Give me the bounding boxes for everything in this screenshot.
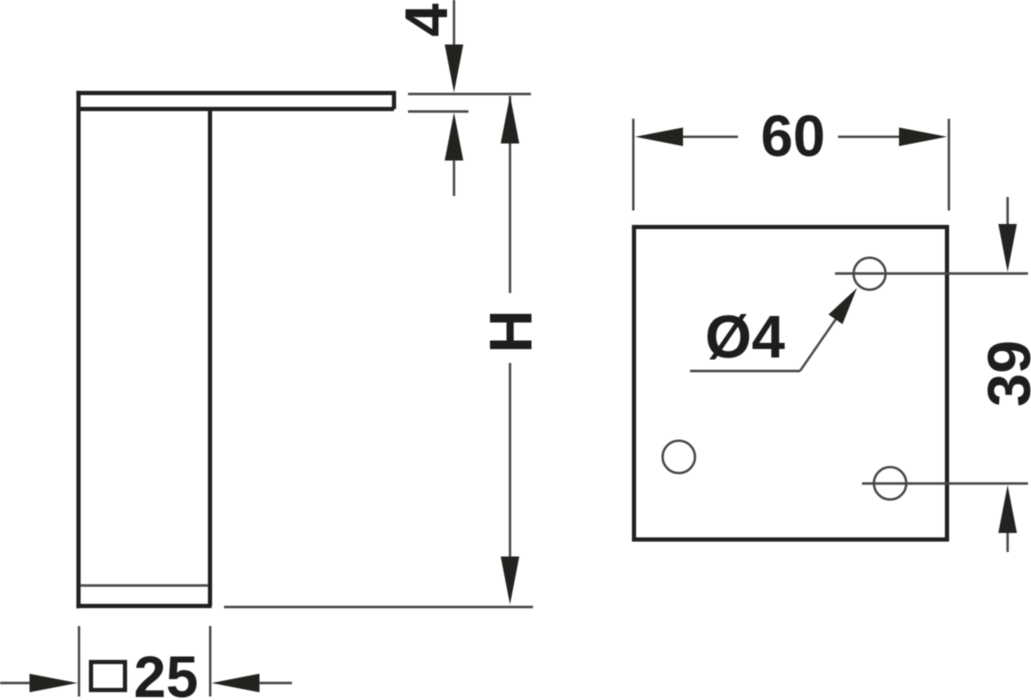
side view: column bottom edge — [76, 604, 211, 608]
label Ø4: leader arrowhead — [829, 288, 858, 324]
dim 4: lower arrowhead (up) — [445, 113, 464, 161]
svg-text:4: 4 — [393, 3, 460, 37]
dim 39: upper arrowhead (down) — [998, 224, 1017, 272]
svg-text:H: H — [478, 310, 545, 353]
dim 25: right arrow tail — [259, 682, 292, 684]
top view: hole top right — [854, 258, 886, 290]
svg-text:Ø4: Ø4 — [705, 304, 786, 371]
top view: hole bottom left — [663, 441, 695, 473]
dim 39: bottom extension line — [862, 482, 1028, 484]
dim 60: right arrowhead (right) — [899, 128, 947, 147]
dim 4: upper arrowhead (down) — [445, 45, 464, 93]
dim H: upper arrowhead (up) — [501, 96, 520, 144]
top view: mounting plate square — [634, 227, 947, 540]
dim 25: right extension line — [209, 626, 211, 697]
dim 39: lower leader line — [1006, 533, 1008, 552]
svg-text:25: 25 — [134, 645, 199, 700]
label Ø4: leader underline — [690, 370, 800, 372]
dim H: bottom extension line — [224, 606, 533, 608]
side view: leg column right edge — [208, 109, 212, 606]
label Ø4: leader diagonal — [800, 316, 838, 371]
dim 4: lower leader line — [453, 160, 455, 196]
dim 4: upper leader line — [453, 0, 455, 46]
dim 60: left arrowhead (left) — [635, 128, 683, 147]
dim 4: extension line top — [408, 93, 531, 95]
dim H: lower arrowhead (down) — [501, 557, 520, 605]
dim 25: square symbol — [91, 662, 125, 690]
side view: leg column left edge — [76, 91, 80, 608]
dim 39: upper leader line — [1006, 197, 1008, 224]
dim 60: right extension line — [948, 119, 950, 211]
dim 60: left tail line — [683, 136, 738, 138]
dim 25: right arrowhead (left) — [212, 674, 260, 693]
dim 25: left arrowhead (right) — [30, 674, 78, 693]
dim 25: left arrow tail — [0, 682, 30, 684]
dim 25: left extension line — [78, 626, 80, 697]
svg-text:39: 39 — [976, 340, 1031, 407]
side view: foot glide line — [81, 584, 208, 586]
top view: hole bottom right — [874, 467, 906, 499]
dim H: dimension line upper segment — [509, 96, 511, 293]
svg-text:60: 60 — [761, 104, 826, 169]
dim 39: top extension line — [835, 272, 1028, 274]
dim 39: lower arrowhead (up) — [998, 485, 1017, 533]
side view: top plate outline — [76, 91, 396, 109]
dim H: dimension line lower segment — [509, 363, 511, 557]
dim 60: right tail line — [838, 136, 899, 138]
dim 60: left extension line — [632, 119, 634, 211]
dim 4: extension line bottom — [408, 110, 469, 112]
